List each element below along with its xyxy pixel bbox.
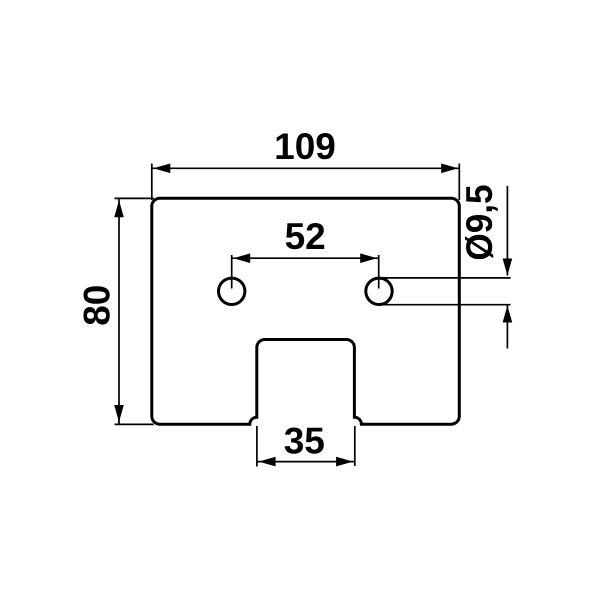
dim 109 extension line right xyxy=(458,164,460,201)
hole right xyxy=(366,278,392,304)
dim 109 arrow right xyxy=(441,164,458,174)
dim 35 arrow right xyxy=(336,457,353,467)
dim 35 extension line left xyxy=(256,426,258,467)
dim 80 extension line top xyxy=(115,197,154,199)
svg-text:52: 52 xyxy=(285,216,326,257)
dim 109 extension line left xyxy=(151,164,153,201)
dim 9.5 upper arrow (points down) xyxy=(503,259,513,276)
dim 9.5 tangent line top xyxy=(379,277,511,279)
dim 109 arrow left xyxy=(153,164,170,174)
plate outline with bottom notch xyxy=(152,198,460,424)
dim 9.5 lower arrow (points up) xyxy=(503,306,513,323)
dim 109 dimension line xyxy=(152,167,459,169)
dim 52 leader to right hole center xyxy=(378,255,380,289)
dim 80 arrow bottom xyxy=(114,405,124,422)
dim 80 extension line bottom xyxy=(115,423,154,425)
dim 52 dimension line xyxy=(232,257,379,259)
dim 80 arrow top xyxy=(114,200,124,217)
dim 52 arrow right xyxy=(360,253,377,263)
dim 35 arrow left xyxy=(259,457,276,467)
svg-text:80: 80 xyxy=(76,285,117,326)
dim 52 arrow left xyxy=(233,253,250,263)
svg-text:109: 109 xyxy=(274,126,336,167)
dim 9.5 tangent line bottom xyxy=(379,304,511,306)
svg-text:Ø9,5: Ø9,5 xyxy=(458,184,500,260)
dim 9.5 upper dimension line xyxy=(506,186,508,276)
hole left xyxy=(219,278,245,304)
svg-text:35: 35 xyxy=(284,421,325,462)
dim 80 dimension line xyxy=(118,199,120,424)
dim 35 dimension line xyxy=(257,461,354,463)
dim 52 leader to left hole center xyxy=(231,255,233,289)
dim 9.5 lower dimension line xyxy=(506,306,508,349)
dim 35 extension line right xyxy=(354,426,356,466)
